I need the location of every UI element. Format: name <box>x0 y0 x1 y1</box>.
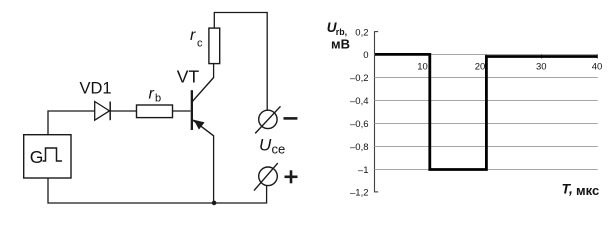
svg-text:VT: VT <box>177 66 200 86</box>
junction dot <box>212 201 217 206</box>
x tick 40 <box>596 55 598 59</box>
x tick 10 <box>429 55 431 59</box>
svg-text:–1: –1 <box>358 165 369 176</box>
curve Urb pulse <box>375 54 598 169</box>
wire generator top to node A <box>48 111 95 135</box>
svg-text:ce: ce <box>272 142 286 157</box>
diode VD1 <box>95 102 111 121</box>
svg-text:–1,2: –1,2 <box>350 188 369 199</box>
x tick 20 <box>485 55 487 59</box>
label rc <box>190 27 203 50</box>
generator G1 box <box>24 135 71 178</box>
gridline -1 <box>375 169 598 171</box>
label Uce <box>259 136 285 157</box>
svg-text:30: 30 <box>536 61 547 72</box>
svg-text:rb,: rb, <box>336 27 347 37</box>
label rb <box>149 86 162 105</box>
svg-text:–0,2: –0,2 <box>350 73 369 84</box>
gridline 0 <box>375 54 598 56</box>
x tick 30 <box>541 55 543 59</box>
svg-text:–0,6: –0,6 <box>350 119 369 130</box>
gridline -0.4 <box>375 100 598 102</box>
x axis title T mks <box>562 181 600 199</box>
terminal plus <box>254 163 298 191</box>
y axis title Urb mV <box>327 20 350 51</box>
resistor Rc <box>209 28 220 64</box>
svg-text:T,: T, <box>562 181 573 197</box>
svg-text:–0,4: –0,4 <box>350 96 369 107</box>
svg-text:40: 40 <box>592 61 603 72</box>
svg-text:0,2: 0,2 <box>355 27 368 38</box>
svg-text:b: b <box>155 93 161 105</box>
svg-text:мкс: мкс <box>576 183 599 198</box>
svg-text:c: c <box>197 38 203 50</box>
svg-text:r: r <box>149 86 155 103</box>
chart y-axis <box>375 31 379 192</box>
gridline -0.6 <box>375 123 598 125</box>
svg-text:G: G <box>30 147 44 167</box>
svg-text:U: U <box>259 136 272 155</box>
svg-text:–0,8: –0,8 <box>350 142 369 153</box>
wire bottom rail <box>48 178 267 203</box>
gridline -0.2 <box>375 77 598 79</box>
svg-text:r: r <box>190 27 196 44</box>
transistor VT <box>191 78 214 136</box>
svg-text:0: 0 <box>363 50 368 61</box>
gridline -0.8 <box>375 146 598 148</box>
wire collector to Rc <box>213 64 215 78</box>
svg-text:20: 20 <box>475 61 486 72</box>
wire Rc top across to right rail <box>214 13 267 111</box>
wire emitter down to bottom rail <box>213 135 215 203</box>
wire Rb to base <box>173 110 191 112</box>
svg-text:10: 10 <box>417 61 428 72</box>
svg-text:мВ: мВ <box>331 36 350 51</box>
resistor Rb <box>137 105 173 118</box>
wire diode to Rb <box>110 110 136 112</box>
svg-text:VD1: VD1 <box>80 79 112 97</box>
terminal minus <box>255 106 297 133</box>
